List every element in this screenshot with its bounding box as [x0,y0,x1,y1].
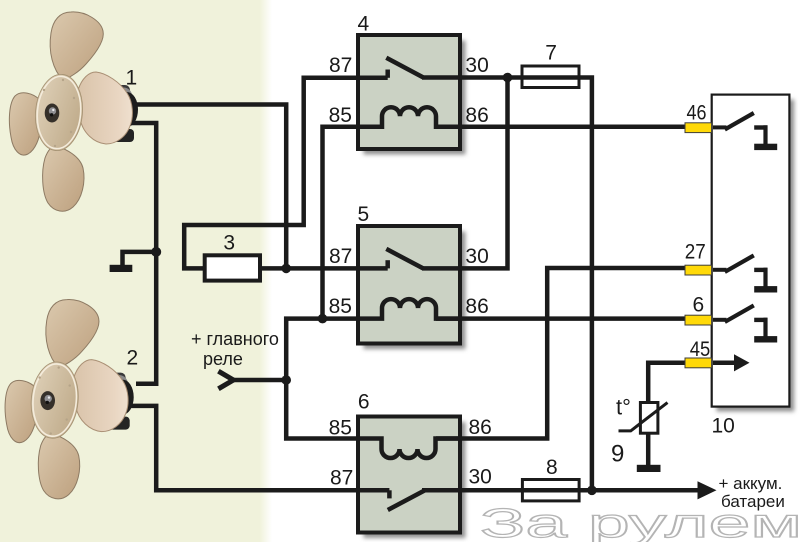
svg-text:86: 86 [465,295,488,318]
wire main relay feed [231,378,286,383]
svg-text:t°: t° [616,395,631,420]
fuse 7 body [522,66,579,88]
wire relay4 86 to terminal 46 [436,125,685,130]
svg-text:7: 7 [545,42,557,65]
svg-text:87: 87 [329,54,352,77]
wire sensor 9 to ground [646,433,651,466]
wire fan1 minus down to fan2 plus [122,123,156,384]
wire terminal 45 to sensor 9 [648,363,685,403]
wire relay4 87 loop to resistor 3 [184,78,388,269]
connector chevron main relay [218,371,233,389]
ground symbol sensor [637,465,661,472]
wire relay4 85 down [323,127,359,319]
svg-text:87: 87 [330,467,353,490]
switch 27 inside block 10 [713,255,777,292]
connector block 10 box [712,95,790,407]
svg-text:45: 45 [690,338,711,361]
svg-text:10: 10 [712,415,735,438]
relay 6 coil [358,439,460,459]
relay 5 box [358,226,460,344]
svg-text:9: 9 [611,441,624,468]
svg-text:+ главного: + главного [191,329,279,349]
relay 4 coil [358,107,460,126]
svg-text:6: 6 [358,391,370,414]
relay 4 box [358,35,460,149]
junction node A fan1-resistor-relay5 [281,264,291,274]
svg-text:реле: реле [203,349,243,369]
relay 5 coil [358,299,460,319]
arrow battery [698,481,717,499]
fan 1 [9,12,138,211]
svg-text:87: 87 [329,245,352,268]
svg-text:85: 85 [329,295,352,318]
relay 6 switch [388,490,425,510]
wire relay5 86 to terminal 6 [436,316,685,321]
junction node ground [151,247,161,257]
ground symbol [110,265,133,272]
svg-text:27: 27 [685,241,706,264]
connector block 10 shadow [717,100,795,412]
wire relay4 30 to relay5 30 [422,78,508,269]
wire ground branch [123,252,157,266]
resistor R3 body [205,255,260,280]
junction node main relay [281,375,291,385]
pale left panel [0,0,272,542]
relay K6 shadow [364,422,466,538]
svg-text:3: 3 [223,232,235,255]
terminal 6 pad [685,315,712,325]
svg-text:За рулем: За рулем [480,500,800,542]
relay 5 switch [386,249,423,269]
fan 2 [5,300,134,499]
relay 4 switch [386,58,423,78]
arrow 45 inside block 10 [713,354,750,371]
svg-text:30: 30 [469,466,492,489]
svg-text:+ аккум.: + аккум. [719,474,783,493]
switch 6 inside block 10 [713,305,777,342]
svg-text:85: 85 [329,104,352,127]
terminal 45 pad [685,358,712,368]
svg-text:2: 2 [127,347,139,370]
switch 46 inside block 10 [713,113,777,150]
svg-text:4: 4 [358,13,370,36]
svg-text:86: 86 [469,416,492,439]
svg-text:46: 46 [687,102,707,125]
wire relay5 85 to relay6 85 [286,319,358,439]
sensor 9 slash [619,403,668,431]
svg-text:1: 1 [126,67,138,90]
svg-text:30: 30 [465,245,488,268]
fuse 8 body [522,480,579,501]
junction node relay4-85 relay5-85 [318,314,328,324]
junction node battery [587,486,597,496]
sensor 9 thermistor body [640,403,658,434]
wire relay4 30 through fuse 7 down to battery line [422,78,592,491]
svg-text:5: 5 [358,203,370,226]
terminal 27 pad [685,265,712,275]
wire relay6 30 through fuse 8 to battery [422,488,700,493]
svg-text:30: 30 [465,54,488,77]
wire terminal 27 to relay6 86 [436,268,685,439]
svg-text:85: 85 [329,417,352,440]
wire fan2 minus to relay6 87 [126,406,389,490]
svg-text:8: 8 [546,456,558,479]
relay K5 shadow [364,232,466,350]
wire fan1 plus to node A [122,105,286,269]
wire resistor 3 to relay5 87 [260,266,388,271]
relay 6 box [358,417,460,533]
relay K4 shadow [364,41,466,155]
terminal 46 pad [685,123,712,133]
junction node relay4-30 fuse7 [503,73,513,83]
svg-text:6: 6 [693,294,705,317]
svg-text:86: 86 [465,104,488,127]
